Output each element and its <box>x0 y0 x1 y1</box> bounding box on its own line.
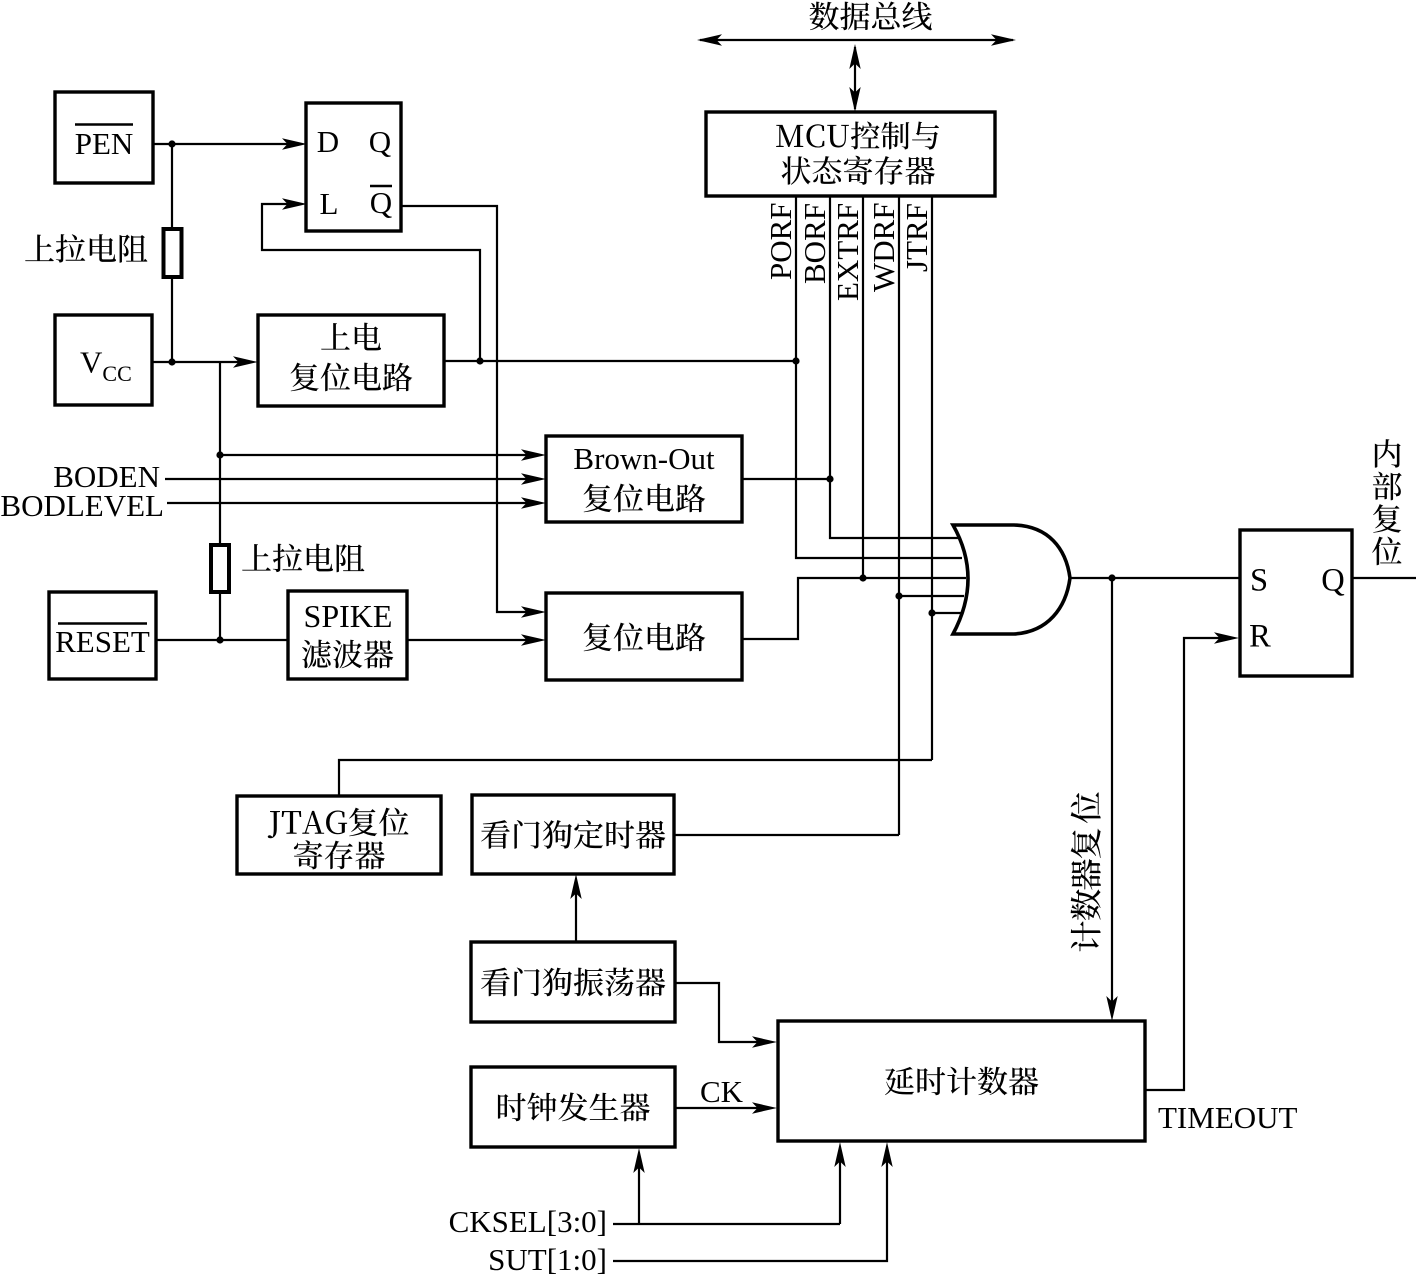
wire Brown-Out output to BORF line <box>742 478 830 480</box>
label counter reset (rotated) <box>1071 792 1101 951</box>
label D latch pins D Q L Qbar <box>317 124 392 221</box>
svg-text:Q: Q <box>1321 563 1344 599</box>
wire VCC tee down to RESET wire (through R2) <box>219 362 221 640</box>
label reset circuit <box>584 623 706 652</box>
wire BODLEVEL input line <box>167 497 546 508</box>
block clock generator <box>471 1067 675 1147</box>
svg-text:Brown-Out: Brown-Out <box>573 441 715 476</box>
label PEN (with overline) <box>75 125 134 162</box>
svg-text:EXTRF: EXTRF <box>830 203 865 301</box>
svg-text:WDRF: WDRF <box>866 202 901 292</box>
wire CK clock generator to delay counter <box>675 1102 777 1113</box>
svg-text:Q: Q <box>370 185 392 220</box>
svg-text:BODLEVEL: BODLEVEL <box>0 488 164 523</box>
node BORF junction <box>826 475 833 482</box>
block SPIKE filter <box>288 591 407 679</box>
node PORF junction on POR output <box>792 357 799 364</box>
label Brown-Out reset circuit <box>573 441 715 512</box>
label MCU control and status register <box>776 121 939 184</box>
svg-text:S: S <box>1250 563 1268 599</box>
wire VCC to power-on reset circuit <box>152 356 258 367</box>
wire latch Qbar output to reset circuit input <box>401 206 546 618</box>
wire pull-up resistor R1 vertical (PEN to VCC wire) <box>171 144 173 362</box>
label power-on reset circuit <box>291 323 413 392</box>
node RESET pull-up junction <box>216 636 223 643</box>
wire SPIKE filter to reset circuit <box>407 634 546 645</box>
wire VCC branch to Brown-Out input <box>220 449 546 460</box>
svg-text:SPIKE: SPIKE <box>304 598 393 634</box>
OR gate (reset sources) <box>953 525 1070 634</box>
resistor R2 pull-up (lower) <box>211 545 229 592</box>
label watchdog oscillator <box>481 967 665 996</box>
wire SR latch Q output (internal reset) <box>1352 577 1416 579</box>
wire OR gate output to S input of SR latch <box>1070 577 1240 579</box>
svg-text:JTRF: JTRF <box>899 203 934 272</box>
wire reset circuit output to OR gate input <box>742 578 966 639</box>
label internal reset (vertical) <box>1372 439 1402 565</box>
node JTRF junction <box>928 609 935 616</box>
node PEN pull-up junction <box>168 140 175 147</box>
node WDRF junction <box>895 592 902 599</box>
svg-text:D: D <box>317 124 339 159</box>
wire CKSEL branch up to clock generator <box>633 1148 644 1224</box>
wire power-on reset output to PORF line <box>444 360 796 362</box>
label watchdog timer <box>481 820 665 849</box>
wire CKSEL branch up to delay counter <box>834 1142 845 1224</box>
wire TIMEOUT from delay counter to R input <box>1145 632 1239 1090</box>
wire watchdog oscillator to watchdog timer <box>570 874 581 942</box>
wire watchdog timer output to WDRF line <box>674 834 899 836</box>
svg-text:SUT[1:0]: SUT[1:0] <box>488 1242 607 1277</box>
wire CKSEL[3:0] line <box>613 1223 840 1225</box>
label delay counter <box>885 1067 1038 1096</box>
block delay counter <box>778 1021 1145 1141</box>
wire RESET to SPIKE filter <box>156 639 288 641</box>
block reset circuit <box>546 593 742 680</box>
block JTAG reset register <box>237 796 441 874</box>
node VCC branch junction <box>216 451 223 458</box>
svg-text:BORF: BORF <box>797 203 832 284</box>
svg-text:L: L <box>320 186 339 221</box>
svg-text:CKSEL[3:0]: CKSEL[3:0] <box>449 1204 607 1239</box>
label pull-up resistor upper <box>25 234 147 263</box>
resistor R1 pull-up (upper) <box>164 229 182 277</box>
block D latch <box>306 103 401 231</box>
block SR latch <box>1240 530 1352 676</box>
wire watchdog oscillator output to delay counter <box>675 983 777 1048</box>
wire PEN to D input <box>153 138 307 149</box>
block RESET input pad <box>49 592 156 679</box>
wire JTRF flag line (MCU register down to JTAG line) <box>931 196 933 760</box>
node EXTRF junction <box>859 574 866 581</box>
svg-text:TIMEOUT: TIMEOUT <box>1158 1100 1298 1135</box>
label data bus <box>809 2 931 31</box>
wire SUT[1:0] line to delay counter <box>613 1142 893 1261</box>
svg-text:PEN: PEN <box>75 126 134 161</box>
wire PORF flag line (MCU register to OR gate) <box>796 196 962 558</box>
node VCC junction <box>168 358 175 365</box>
wire WDRF to OR gate input <box>899 595 964 597</box>
label JTAG reset register <box>268 808 409 870</box>
node L feedback tap on POR output <box>476 357 483 364</box>
wire JTRF to OR gate input <box>932 612 962 614</box>
label pull-up resistor lower <box>242 544 364 573</box>
block power-on reset circuit <box>258 315 444 406</box>
label SR latch pins S R Q <box>1249 563 1345 655</box>
wire BORF flag line (MCU register to OR gate) <box>830 196 960 538</box>
wire latch L input feedback from POR output <box>262 198 480 361</box>
label RESET (with overline) <box>55 624 150 660</box>
svg-text:Q: Q <box>369 124 391 159</box>
label SPIKE filter <box>302 598 393 668</box>
svg-text:RESET: RESET <box>55 624 150 659</box>
wire JTAG reset register to JTRF line <box>339 760 932 796</box>
node counter reset junction <box>1108 574 1115 581</box>
svg-text:R: R <box>1249 619 1271 655</box>
block Brown-Out reset circuit <box>546 436 742 522</box>
block watchdog timer <box>472 795 674 874</box>
block watchdog oscillator <box>471 942 675 1022</box>
svg-text:PORF: PORF <box>763 202 798 280</box>
label clock generator <box>498 1092 650 1121</box>
wire WDRF flag line (MCU register to watchdog output) <box>898 196 900 835</box>
wire data bus to MCU vertical double arrow <box>849 44 860 112</box>
wire BODEN input line <box>165 473 546 484</box>
wire EXTRF flag line (MCU register down) <box>862 196 864 578</box>
wire data bus horizontal double arrow <box>697 34 1016 45</box>
wire counter reset down to delay counter <box>1106 578 1117 1021</box>
svg-text:CK: CK <box>700 1074 744 1109</box>
block MCU control and status register <box>706 112 995 196</box>
block PEN input pad <box>55 92 153 183</box>
block VCC input pad <box>55 315 152 405</box>
